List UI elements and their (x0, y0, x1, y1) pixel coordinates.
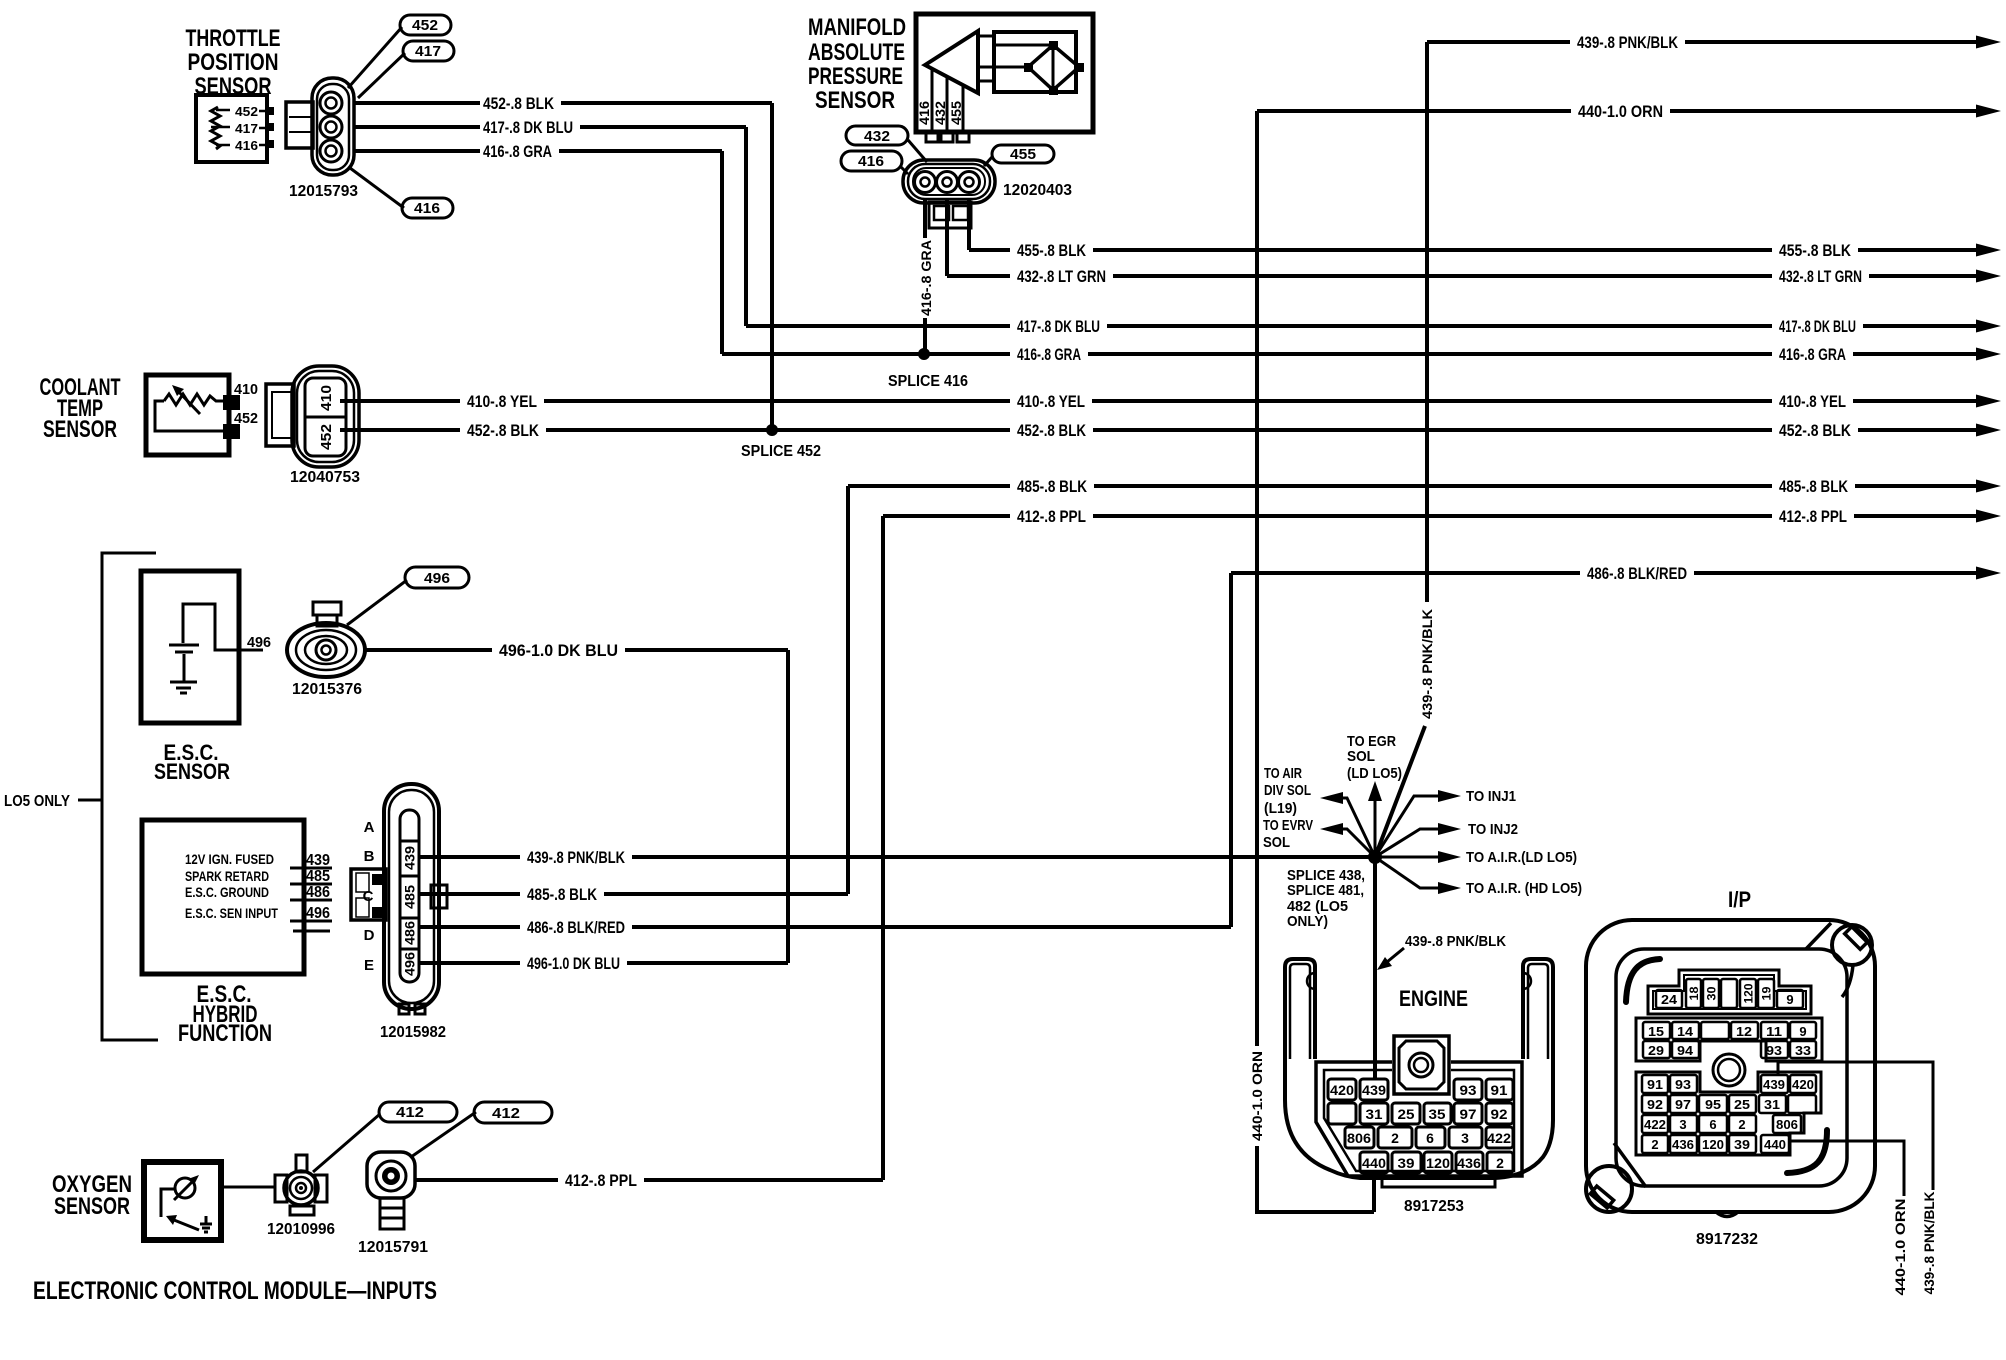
svg-text:439: 439 (1362, 1082, 1386, 1098)
TPS potentiometer resistor (211, 107, 220, 149)
svg-text:TO A.I.R. (HD LO5): TO A.I.R. (HD LO5) (1466, 880, 1582, 897)
MAP connector 12020403 body (903, 160, 995, 203)
I/P connector outer shell (1586, 920, 1875, 1212)
svg-text:8917232: 8917232 (1696, 1231, 1758, 1248)
wire 416-.8 GRA horizontal (722, 345, 2001, 364)
arrow to INJ2 (1375, 829, 1440, 857)
svg-text:THROTTLE: THROTTLE (186, 25, 281, 52)
I/P bottom-left mounting ear (1586, 1143, 1646, 1212)
svg-text:422: 422 (1644, 1117, 1666, 1132)
svg-text:92: 92 (1647, 1097, 1663, 1112)
svg-text:410: 410 (318, 385, 335, 411)
wire 452-.8 BLK TPS horizontal (353, 94, 772, 113)
svg-text:485: 485 (306, 868, 330, 885)
svg-text:410-.8 YEL: 410-.8 YEL (1017, 392, 1085, 411)
MAP lead 455 (962, 85, 965, 132)
arrow to A.I.R. (HD LO5) (1375, 857, 1440, 888)
wire 410-.8 YEL horizontal (340, 392, 2001, 411)
svg-text:ABSOLUTE: ABSOLUTE (808, 39, 905, 66)
439 wire annotation (1377, 933, 1506, 970)
splice 416 junction dot (918, 348, 930, 360)
svg-text:420: 420 (1792, 1077, 1814, 1092)
svg-text:452: 452 (412, 17, 438, 34)
svg-text:POSITION: POSITION (188, 49, 279, 76)
I/P pin 30 (1703, 979, 1719, 1008)
oxygen sensor box (144, 1162, 221, 1240)
I/P pin 2 (1729, 1115, 1756, 1133)
svg-text:TO INJ1: TO INJ1 (1466, 788, 1516, 805)
svg-text:496: 496 (424, 570, 450, 587)
svg-text:(LD LO5): (LD LO5) (1347, 765, 1402, 782)
svg-text:12: 12 (1736, 1024, 1752, 1039)
LO5 ONLY bracket (102, 553, 158, 1040)
ENGINE pin 25 (1392, 1103, 1420, 1124)
svg-text:92: 92 (1491, 1106, 1508, 1122)
svg-text:440-1.0 ORN: 440-1.0 ORN (1249, 1051, 1265, 1141)
I/P pin 12 (1731, 1022, 1758, 1039)
svg-text:93: 93 (1766, 1043, 1782, 1058)
svg-text:416-.8 GRA: 416-.8 GRA (483, 142, 552, 161)
MAP connector pin 416 (915, 172, 936, 193)
wire 455 vertical from MAP connector (967, 200, 971, 250)
MAP amp to bridge links (978, 36, 1028, 81)
wire 486-.8 BLK/RED from ESC pin D (419, 918, 1231, 937)
svg-text:94: 94 (1677, 1043, 1694, 1058)
wire 412-.8 PPL from oxygen sensor connector (415, 1171, 883, 1190)
wire 439-.8 PNK/BLK to I/P (1778, 1062, 1937, 1295)
wire 439-.8 PNK/BLK from ESC pin B to splice (419, 848, 1375, 867)
svg-text:95: 95 (1705, 1097, 1721, 1112)
svg-text:440: 440 (1362, 1155, 1386, 1171)
I/P third grid outline (1636, 1072, 1821, 1155)
svg-text:485-.8 BLK: 485-.8 BLK (1779, 477, 1849, 496)
coolant temp sensor title (40, 374, 121, 443)
wire 416 vertical from TPS (720, 151, 724, 354)
TPS connector pin 452 (320, 92, 342, 114)
svg-text:TO INJ2: TO INJ2 (1468, 821, 1518, 838)
I/P pin 3 (1670, 1115, 1697, 1133)
I/P pin 14 (1672, 1022, 1699, 1039)
coolant temp sensor box (146, 375, 229, 455)
svg-text:SPLICE 416: SPLICE 416 (888, 373, 968, 390)
I/P pin 25 (1729, 1095, 1756, 1113)
svg-text:455: 455 (948, 101, 964, 125)
svg-text:2: 2 (1391, 1130, 1399, 1146)
wire 452 vertical from TPS to splice 452 (770, 103, 774, 430)
svg-text:DIV SOL: DIV SOL (1264, 782, 1311, 799)
svg-text:97: 97 (1675, 1097, 1691, 1112)
svg-text:485-.8 BLK: 485-.8 BLK (1017, 477, 1088, 496)
svg-text:485-.8 BLK: 485-.8 BLK (527, 885, 598, 904)
wire 440-1.0 ORN vertical (1249, 111, 1374, 1212)
I/P pin 440 (1761, 1135, 1789, 1153)
TPS terminal dots (265, 107, 274, 115)
svg-text:TO A.I.R.(LD LO5): TO A.I.R.(LD LO5) (1466, 849, 1577, 866)
ENGINE pin 2 (1378, 1127, 1412, 1148)
wire 496-1.0 DK BLU from ESC pin E (419, 954, 788, 973)
coolant connector 12040753 body (292, 366, 359, 467)
TPS tap 416 (216, 144, 267, 147)
I/P pin 806 (1773, 1115, 1801, 1133)
wire 439 vertical splice to ENGINE connector (1373, 857, 1377, 1078)
svg-text:496-1.0 DK BLU: 496-1.0 DK BLU (499, 641, 618, 660)
svg-text:410: 410 (234, 381, 258, 398)
svg-text:436: 436 (1457, 1155, 1481, 1171)
wire 432-.8 LT GRN horizontal (947, 267, 2001, 286)
wire 496-1.0 DK BLU from ESC sensor (363, 641, 788, 660)
oxygen connector 12015791 (367, 1152, 415, 1229)
I/P bottom notch (1716, 1212, 1738, 1217)
svg-text:496: 496 (306, 905, 330, 922)
svg-text:410-.8 YEL: 410-.8 YEL (1779, 392, 1846, 411)
svg-text:422: 422 (1487, 1130, 1511, 1146)
ESC hybrid spare stub (293, 930, 330, 933)
svg-text:FUNCTION: FUNCTION (178, 1020, 272, 1047)
svg-text:E: E (364, 957, 374, 974)
svg-text:29: 29 (1648, 1043, 1664, 1058)
svg-text:B: B (364, 848, 375, 865)
I/P pin 18 (1686, 979, 1701, 1008)
I/P pin 436 (1670, 1135, 1697, 1153)
oxygen sensor 12010996 (275, 1155, 327, 1215)
svg-text:120: 120 (1426, 1155, 1450, 1171)
svg-text:806: 806 (1776, 1117, 1798, 1132)
svg-text:439-.8 PNK/BLK: 439-.8 PNK/BLK (1921, 1192, 1937, 1295)
ESC hybrid function box (142, 820, 304, 974)
svg-text:18: 18 (1687, 986, 1701, 1000)
TPS pill 416 (350, 168, 453, 218)
ENGINE pin 39 (1392, 1152, 1421, 1173)
svg-text:91: 91 (1491, 1082, 1508, 1098)
svg-text:452: 452 (234, 410, 258, 427)
I/P pin 422 (1642, 1115, 1668, 1133)
wire 432 vertical from MAP connector (945, 200, 949, 276)
wire 496 vertical riser (786, 650, 790, 963)
I/P top-right mounting ear (1806, 923, 1872, 997)
svg-text:12015791: 12015791 (358, 1239, 428, 1256)
svg-text:E.S.C. GROUND: E.S.C. GROUND (185, 884, 269, 900)
svg-text:SOL: SOL (1347, 748, 1375, 765)
svg-text:25: 25 (1398, 1106, 1415, 1122)
ENGINE pin 2 lower right (1487, 1152, 1513, 1173)
svg-text:416-.8 GRA: 416-.8 GRA (1779, 345, 1846, 364)
svg-text:417: 417 (415, 43, 441, 60)
svg-text:SPARK RETARD: SPARK RETARD (185, 868, 269, 884)
ENGINE pin 92 (1486, 1103, 1513, 1124)
ENGINE grid lip (1382, 1176, 1495, 1187)
svg-text:8917253: 8917253 (1404, 1198, 1464, 1215)
svg-text:D: D (364, 927, 375, 944)
ESC sensor internal circuit (183, 604, 263, 650)
svg-text:12040753: 12040753 (290, 469, 360, 486)
svg-text:455: 455 (1010, 146, 1036, 163)
I/P pin 439 (1761, 1075, 1788, 1093)
svg-text:455-.8 BLK: 455-.8 BLK (1779, 241, 1852, 260)
I/P pin 93 mid (1761, 1041, 1788, 1058)
I/P pin 6 (1699, 1115, 1727, 1133)
I/P pin blank low (1788, 1095, 1816, 1113)
TPS tap 417 (211, 127, 267, 128)
svg-text:496: 496 (402, 952, 418, 976)
I/P center circle (1713, 1054, 1745, 1086)
I/P pin 120 low (1699, 1135, 1727, 1153)
TPS connector 12015793 body (312, 78, 354, 175)
ENGINE connector left bar inner line (1290, 964, 1310, 1059)
svg-text:440: 440 (1764, 1137, 1786, 1152)
ESC sensor ground (170, 654, 197, 693)
svg-text:I/P: I/P (1728, 887, 1751, 912)
svg-text:SENSOR: SENSOR (43, 416, 117, 443)
ENGINE pin 93 (1454, 1079, 1482, 1100)
svg-text:436: 436 (1672, 1137, 1694, 1152)
svg-text:97: 97 (1460, 1106, 1477, 1122)
svg-text:91: 91 (1647, 1077, 1663, 1092)
MAP bridge diamond (1028, 45, 1079, 90)
oxygen sensor output wire (221, 1186, 276, 1189)
svg-text:30: 30 (1705, 986, 1719, 1000)
TPS pill 417 (358, 41, 454, 98)
svg-text:416: 416 (414, 200, 440, 217)
svg-text:432-.8 LT GRN: 432-.8 LT GRN (1779, 267, 1862, 286)
TPS connector pin 417 (320, 116, 342, 138)
oxygen pill 412 second (411, 1102, 552, 1157)
svg-text:439-.8 PNK/BLK: 439-.8 PNK/BLK (1577, 33, 1679, 52)
I/P pin 2 low (1642, 1135, 1668, 1153)
wire 485-.8 BLK horizontal (848, 477, 2001, 496)
ENGINE pin 91 (1486, 1079, 1513, 1100)
oxygen sensor symbol circle with arrow (175, 1178, 195, 1198)
wire 486 vertical riser (1229, 573, 1233, 927)
wire 485-.8 BLK from ESC pin C (419, 885, 848, 904)
wire 455-.8 BLK horizontal (969, 241, 2001, 260)
svg-text:24: 24 (1661, 992, 1678, 1007)
svg-text:439-.8 PNK/BLK: 439-.8 PNK/BLK (1405, 933, 1506, 950)
wire 416 vertical from MAP connector to splice 416 (918, 200, 934, 354)
wire 412-.8 PPL horizontal (883, 507, 2001, 526)
ESC hybrid circuit number 496 (290, 920, 332, 923)
throttle position sensor title (186, 25, 281, 100)
wire 486-.8 BLK/RED horizontal (1231, 564, 2001, 583)
ENGINE pin 97 (1454, 1103, 1482, 1124)
MAP connector lower tab (929, 202, 971, 228)
ESC connector feet (399, 1004, 409, 1014)
svg-text:440-1.0 ORN: 440-1.0 ORN (1892, 1199, 1908, 1296)
ENGINE connector outer shell (1285, 959, 1553, 1178)
svg-text:MANIFOLD: MANIFOLD (808, 14, 906, 41)
wire 440-1.0 ORN to I/P (1790, 1141, 1908, 1296)
svg-text:452: 452 (235, 104, 258, 119)
ESC connector left tab (351, 869, 386, 920)
coolant terminal 452 (223, 424, 240, 439)
svg-text:SPLICE 481,: SPLICE 481, (1287, 882, 1364, 899)
ESC connector pin slot (400, 810, 419, 982)
svg-text:120: 120 (1702, 1137, 1724, 1152)
svg-text:452-.8 BLK: 452-.8 BLK (467, 421, 540, 440)
svg-text:2: 2 (1651, 1137, 1658, 1152)
svg-text:416: 416 (916, 101, 932, 125)
svg-text:12015982: 12015982 (380, 1024, 446, 1041)
oxygen sensor ground (200, 1216, 212, 1232)
ENGINE pin blank (1328, 1103, 1356, 1124)
throttle position sensor box (196, 95, 267, 162)
svg-text:417-.8 DK BLU: 417-.8 DK BLU (1779, 317, 1856, 336)
svg-text:15: 15 (1648, 1024, 1664, 1039)
svg-text:412-.8 PPL: 412-.8 PPL (1779, 507, 1847, 526)
I/P connector inner shell (1616, 949, 1847, 1186)
svg-text:486: 486 (306, 884, 330, 901)
I/P pin 19 (1758, 979, 1774, 1008)
svg-text:19: 19 (1760, 986, 1774, 1000)
svg-text:120: 120 (1742, 983, 1756, 1003)
I/P pin 39 (1729, 1135, 1756, 1153)
wire 439-.8 PNK/BLK vertical (1375, 42, 1435, 857)
svg-text:416-.8 GRA: 416-.8 GRA (918, 240, 934, 316)
svg-text:432-.8 LT GRN: 432-.8 LT GRN (1017, 267, 1106, 286)
ESC sensor pill 496 (347, 567, 469, 625)
svg-text:35: 35 (1429, 1106, 1446, 1122)
I/P pin 97 (1670, 1095, 1697, 1113)
TPS tap 452 (216, 110, 267, 111)
svg-text:SPLICE 452: SPLICE 452 (741, 443, 821, 460)
ESC hybrid circuit number 485 (290, 883, 332, 886)
svg-text:412-.8 PPL: 412-.8 PPL (1017, 507, 1086, 526)
wire 412 vertical riser (881, 516, 885, 1180)
svg-text:ELECTRONIC CONTROL MODULE—INPU: ELECTRONIC CONTROL MODULE—INPUTS (33, 1277, 437, 1305)
I/P pin 33 (1790, 1041, 1816, 1058)
I/P pin 9 top (1777, 990, 1803, 1008)
MAP pill 455 (984, 145, 1054, 166)
I/P pin 95 (1699, 1095, 1727, 1113)
svg-text:11: 11 (1766, 1024, 1782, 1039)
svg-text:452-.8 BLK: 452-.8 BLK (483, 94, 555, 113)
coolant sensor internal wire (155, 401, 223, 431)
ENGINE connector left notch (1307, 973, 1315, 989)
I/P pin 92 (1642, 1095, 1668, 1113)
svg-text:ENGINE: ENGINE (1399, 986, 1468, 1011)
I/P pin 15 (1643, 1022, 1670, 1039)
ENGINE pin 6 (1416, 1127, 1445, 1148)
svg-text:39: 39 (1734, 1137, 1750, 1152)
coolant terminal 410 (223, 395, 240, 410)
arrow to INJ1 (1375, 796, 1440, 857)
svg-text:6: 6 (1709, 1117, 1716, 1132)
MAP bridge inner rect (994, 45, 1053, 92)
svg-text:TO EVRV: TO EVRV (1263, 817, 1313, 834)
svg-text:(L19): (L19) (1264, 800, 1297, 817)
svg-text:PRESSURE: PRESSURE (808, 63, 903, 90)
svg-text:SOL: SOL (1263, 834, 1290, 851)
svg-text:439: 439 (306, 852, 330, 869)
ESC sensor piezo plates (169, 645, 199, 652)
svg-text:452: 452 (318, 424, 335, 450)
I/P pin 31 (1759, 1095, 1786, 1113)
I/P top-left arc detail (1626, 959, 1660, 1002)
I/P top strip outline (1648, 970, 1811, 1014)
svg-text:455-.8 BLK: 455-.8 BLK (1017, 241, 1087, 260)
I/P pin 94 (1672, 1041, 1699, 1058)
ENGINE connector right bar inner line (1528, 964, 1548, 1059)
I/P pin 11 (1761, 1022, 1788, 1039)
I/P pin 120 top (1740, 979, 1756, 1008)
svg-text:496: 496 (247, 634, 271, 651)
svg-text:25: 25 (1734, 1097, 1750, 1112)
svg-text:439-.8 PNK/BLK: 439-.8 PNK/BLK (527, 848, 626, 867)
ENGINE pin 35 (1424, 1103, 1451, 1124)
MAP connector pin 432 (937, 172, 958, 193)
E.S.C. HYBRID FUNCTION title (178, 981, 272, 1047)
svg-text:SENSOR: SENSOR (154, 759, 230, 784)
ESC hybrid circuit number 486 (290, 899, 332, 902)
svg-text:31: 31 (1366, 1106, 1383, 1122)
svg-text:486: 486 (402, 921, 418, 945)
splice 438 481 482 label (1287, 867, 1365, 930)
MAP lead 432 (946, 77, 949, 132)
arrow to A.I.R. (LD LO5) (1375, 856, 1440, 859)
coolant connector 12040753 tab (266, 384, 294, 446)
svg-text:12015793: 12015793 (289, 183, 358, 200)
I/P pin 420 (1790, 1075, 1816, 1093)
svg-text:3: 3 (1461, 1130, 1469, 1146)
svg-text:12010996: 12010996 (267, 1221, 335, 1238)
I/P pin 9 mid (1790, 1022, 1816, 1039)
svg-text:12015376: 12015376 (292, 681, 362, 698)
I/P second grid outline (1636, 1018, 1822, 1061)
TPS pill 452 (348, 15, 451, 88)
svg-text:486-.8 BLK/RED: 486-.8 BLK/RED (1587, 564, 1687, 583)
oxygen sensor internal wire (161, 1189, 175, 1217)
ESC connector 12015982 body (384, 784, 439, 1009)
I/P pin 91 (1642, 1075, 1668, 1093)
svg-text:93: 93 (1460, 1082, 1477, 1098)
MAP sensor box (916, 14, 1093, 132)
svg-text:31: 31 (1764, 1097, 1780, 1112)
wire 417-.8 DK BLU horizontal (746, 317, 2001, 336)
svg-text:432: 432 (864, 128, 890, 145)
ESC connector pin letters (363, 819, 375, 974)
splice 452 junction dot (766, 424, 778, 436)
ENGINE hex nut (1394, 1036, 1449, 1094)
svg-text:3: 3 (1679, 1117, 1686, 1132)
arrow to EGR SOL (1374, 799, 1377, 857)
svg-text:SENSOR: SENSOR (815, 87, 895, 114)
svg-text:440-1.0 ORN: 440-1.0 ORN (1578, 102, 1663, 121)
MAP connector pin 455 (959, 172, 980, 193)
ESC hybrid pin function labels (185, 851, 278, 921)
MAP bridge outer rect (994, 32, 1076, 92)
svg-text:417-.8 DK BLU: 417-.8 DK BLU (1017, 317, 1100, 336)
ENGINE pin 806 (1345, 1127, 1374, 1148)
svg-text:452-.8 BLK: 452-.8 BLK (1017, 421, 1087, 440)
ESC connector 485 key (431, 885, 447, 908)
svg-text:439: 439 (1763, 1077, 1785, 1092)
oxygen sensor lower arrow (174, 1220, 199, 1230)
ENGINE pin 3 (1449, 1127, 1482, 1148)
svg-text:416-.8 GRA: 416-.8 GRA (1017, 345, 1081, 364)
ENGINE pin 120 (1424, 1152, 1452, 1173)
svg-text:439-.8 PNK/BLK: 439-.8 PNK/BLK (1419, 609, 1435, 719)
svg-text:12V IGN. FUSED: 12V IGN. FUSED (185, 851, 274, 867)
svg-text:33: 33 (1795, 1043, 1811, 1058)
wire 416-.8 GRA TPS horizontal (353, 142, 722, 161)
wire 417-.8 DK BLU TPS horizontal (353, 118, 746, 137)
I/P pin 24 (1656, 990, 1682, 1008)
ESC sensor connector 12015376 (287, 602, 365, 677)
ESC hybrid circuit number 439 (290, 867, 332, 870)
svg-text:C: C (363, 888, 374, 905)
ENGINE grid block outline (1316, 1062, 1522, 1176)
svg-text:A: A (364, 819, 375, 836)
I/P pin blank row1 (1701, 1022, 1729, 1039)
